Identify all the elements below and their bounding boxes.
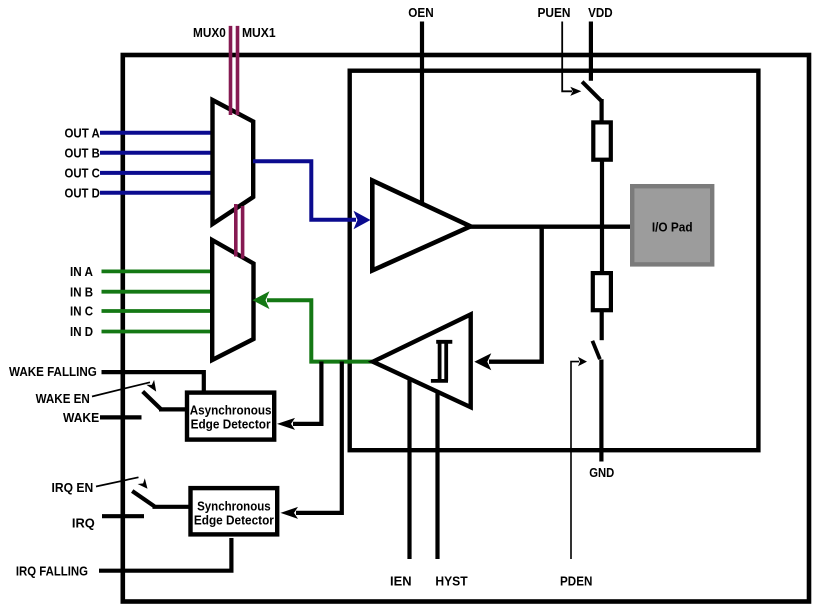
- wire IRQ FALLING: [99, 538, 231, 571]
- wire IN C: [102, 309, 214, 313]
- mux U1 output mux: [213, 100, 254, 224]
- control PDEN pointer wire: [571, 362, 579, 559]
- svg-text:PDEN: PDEN: [560, 574, 592, 589]
- svg-text:IRQ: IRQ: [72, 516, 95, 531]
- arrow into input buffer: [474, 353, 491, 370]
- svg-text:OEN: OEN: [408, 5, 433, 20]
- resistor R1 pull-up: [593, 122, 611, 159]
- wire feedback pad to input buffer: [489, 227, 542, 362]
- arrow into input mux (green): [253, 291, 270, 309]
- wire mux output to output buffer (blue): [253, 161, 356, 220]
- wire sync edge detector input tap: [296, 362, 342, 513]
- svg-text:MUX1: MUX1: [242, 25, 276, 40]
- wire IN D: [102, 330, 214, 334]
- svg-text:HYST: HYST: [435, 574, 467, 589]
- svg-text:VDD: VDD: [588, 5, 613, 20]
- svg-text:WAKE FALLING: WAKE FALLING: [9, 364, 97, 379]
- hysteresis symbol top bar: [436, 340, 452, 344]
- svg-text:OUT C: OUT C: [65, 166, 101, 181]
- switch S1 pull-up blade: [582, 82, 602, 102]
- wire input buffer output to input mux (green): [267, 300, 373, 361]
- wire switch to R1: [599, 99, 603, 122]
- outer cell boundary: [123, 55, 809, 602]
- wire output buffer to I/O pad: [468, 224, 632, 228]
- ground wire: [599, 360, 603, 462]
- svg-text:IN C: IN C: [70, 304, 94, 319]
- svg-text:GND: GND: [589, 465, 614, 480]
- svg-text:Edge Detector: Edge Detector: [194, 512, 274, 527]
- svg-text:OUT B: OUT B: [65, 145, 100, 160]
- svg-text:IEN: IEN: [390, 574, 412, 589]
- svg-text:Asynchronous: Asynchronous: [190, 402, 272, 417]
- wire IN B: [102, 290, 214, 294]
- hysteresis symbol right bar: [444, 342, 448, 381]
- wire IN A: [102, 269, 214, 273]
- power VDD wire: [589, 22, 593, 81]
- svg-text:OUT A: OUT A: [65, 125, 101, 140]
- wire WAKE stub: [100, 415, 142, 419]
- block asynchronous edge detector: [187, 393, 274, 440]
- control PUEN pointer wire: [562, 22, 572, 92]
- arrow PDEN: [578, 357, 587, 366]
- switch S3 wake enable blade: [143, 392, 161, 410]
- arrow IRQ EN: [138, 478, 148, 489]
- wire select lines between muxes (MUX1): [241, 206, 245, 259]
- control IRQ EN pointer: [96, 477, 139, 486]
- I/O Pad: [632, 186, 712, 264]
- wire select lines between muxes (MUX0): [234, 204, 238, 257]
- net MUX0 select line: [229, 26, 233, 115]
- svg-text:IRQ FALLING: IRQ FALLING: [16, 564, 88, 579]
- op-amp U4 input buffer: [373, 314, 471, 407]
- svg-text:WAKE: WAKE: [63, 410, 100, 425]
- wire WAKE FALLING: [102, 372, 204, 392]
- wire wake switch to async box: [159, 407, 188, 411]
- svg-text:Edge Detector: Edge Detector: [191, 416, 271, 431]
- arrow into async edge detector: [277, 418, 295, 430]
- svg-text:OUT D: OUT D: [65, 185, 100, 200]
- node OEN wire: [420, 22, 424, 206]
- svg-text:IRQ EN: IRQ EN: [52, 480, 94, 495]
- net MUX1 select line: [236, 26, 240, 115]
- wire R1 to R2: [600, 160, 604, 273]
- node IEN wire: [407, 368, 411, 559]
- hysteresis symbol bottom bar: [431, 379, 448, 383]
- arrow WAKE EN: [146, 380, 156, 392]
- svg-text:I/O Pad: I/O Pad: [652, 219, 693, 234]
- svg-text:Synchronous: Synchronous: [197, 498, 271, 513]
- arrow into output buffer (blue): [354, 211, 371, 230]
- svg-text:IN D: IN D: [70, 324, 93, 339]
- wire OUT D: [100, 191, 213, 195]
- control WAKE EN pointer: [92, 382, 150, 396]
- svg-text:MUX0: MUX0: [193, 25, 226, 40]
- wire OUT A: [100, 131, 213, 135]
- wire OUT C: [100, 171, 213, 175]
- switch S2 pull-down blade: [592, 341, 600, 359]
- wire R2 to switch S2: [600, 310, 604, 340]
- wire IRQ stub: [102, 514, 144, 518]
- svg-text:PUEN: PUEN: [538, 5, 571, 20]
- wire OUT B: [100, 151, 213, 155]
- arrow into sync edge detector: [281, 507, 299, 519]
- arrow PUEN: [570, 87, 581, 96]
- switch S4 irq enable blade: [132, 491, 154, 506]
- op-amp U3 output buffer: [372, 181, 470, 271]
- hysteresis symbol left bar: [438, 342, 442, 381]
- svg-text:WAKE EN: WAKE EN: [36, 391, 90, 406]
- wire async edge detector input tap: [293, 362, 321, 424]
- node HYST wire: [435, 384, 439, 559]
- core logic box: [350, 71, 759, 451]
- svg-text:IN A: IN A: [70, 264, 94, 279]
- resistor R2 pull-down: [593, 273, 611, 310]
- block synchronous edge detector: [191, 488, 278, 534]
- svg-text:IN B: IN B: [70, 284, 93, 299]
- mux U2 input mux: [212, 240, 253, 360]
- wire irq switch to sync box: [153, 505, 193, 509]
